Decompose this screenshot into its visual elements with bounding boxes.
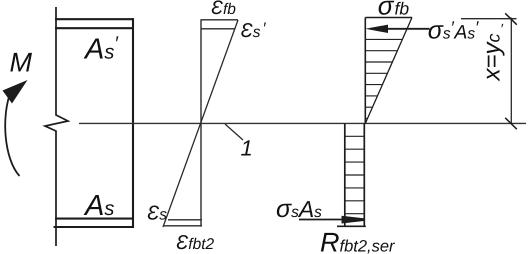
svg-text:Ɛs: Ɛs: [147, 202, 167, 224]
svg-text:M: M: [10, 48, 33, 78]
svg-text:σsAs: σsAs: [276, 195, 322, 223]
svg-text:Rfbt2,ser: Rfbt2,ser: [320, 227, 396, 254]
svg-text:Ɛfbt2: Ɛfbt2: [176, 232, 215, 254]
svg-text:σs′As′: σs′As′: [428, 16, 479, 44]
svg-text:As′: As′: [83, 34, 119, 66]
svg-text:σfb: σfb: [378, 0, 410, 21]
svg-text:x=yc: x=yc: [479, 33, 506, 81]
svg-text:As: As: [83, 190, 114, 222]
svg-text:Ɛfb: Ɛfb: [211, 0, 236, 19]
svg-text:′: ′: [500, 21, 504, 37]
svg-text:Ɛs′: Ɛs′: [241, 20, 267, 42]
svg-text:1: 1: [241, 136, 253, 161]
